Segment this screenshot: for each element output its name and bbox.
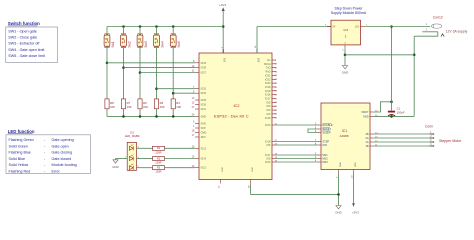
- pin GND bottom of IC1: [338, 170, 340, 174]
- pin GND bottom-right of IC2: [250, 180, 252, 184]
- resistor R1: [153, 146, 165, 150]
- wire R6 to ground rail: [139, 109, 141, 117]
- svg-text:GND: GND: [342, 70, 348, 74]
- wire R3 to IC2: [165, 167, 196, 169]
- svg-text:+3V3: +3V3: [219, 3, 226, 7]
- svg-text:10K: 10K: [143, 105, 148, 109]
- wire IC2 IO17 to IC1: [276, 154, 317, 156]
- svg-text:MS1: MS1: [322, 153, 328, 157]
- pin RESET of IC1: [317, 128, 321, 130]
- svg-text:3V3: 3V3: [224, 57, 227, 62]
- wire Sw4 to IC2: [157, 88, 196, 90]
- junction Sw4 branch: [155, 87, 158, 90]
- junction IC3 ground: [344, 54, 347, 57]
- svg-text:1B: 1B: [365, 144, 368, 148]
- svg-text:IO34: IO34: [201, 62, 207, 65]
- svg-text:IO0: IO0: [266, 109, 271, 112]
- svg-text:IC2: IC2: [233, 103, 239, 108]
- junction 12V rail: [390, 25, 393, 28]
- svg-text:IO13: IO13: [201, 147, 207, 150]
- svg-text:DIR: DIR: [322, 143, 327, 147]
- svg-text:A4988: A4988: [340, 134, 349, 138]
- junction 3V3 rail switch: [139, 25, 142, 28]
- svg-text:GND: GND: [363, 114, 369, 118]
- pin SD3 of IC2: [195, 136, 199, 138]
- junction ground rail: [122, 115, 125, 118]
- wire IC2 IO18 to IC1: [276, 141, 317, 143]
- resistor R2: [153, 157, 165, 161]
- svg-text:Error: Error: [52, 169, 61, 173]
- pin IO16 of IC2: [272, 94, 276, 96]
- pin IO21 of IC2: [195, 108, 199, 110]
- svg-text:Flashing Blue: Flashing Blue: [9, 151, 31, 155]
- svg-text:SW3 - Extractor off: SW3 - Extractor off: [8, 42, 40, 46]
- wire IC1 to stepper pin 1: [374, 133, 430, 135]
- switch Sw4: [154, 35, 160, 46]
- svg-text:IO26: IO26: [201, 104, 207, 107]
- wire IC1 GND pin to ground riser: [374, 115, 414, 117]
- wire switch Sw3 top drop: [139, 27, 141, 36]
- svg-text:Step Down Power: Step Down Power: [334, 7, 363, 11]
- pin 12V of IC3: [361, 26, 365, 28]
- svg-text:Stepper Motor: Stepper Motor: [439, 139, 462, 143]
- svg-text:IO22: IO22: [265, 78, 271, 81]
- wire R7 to ground rail: [123, 109, 125, 117]
- svg-text:IO25: IO25: [201, 99, 207, 102]
- svg-text:Sw3: Sw3: [144, 41, 148, 47]
- wire IC2 IO9 to IC1: [276, 158, 317, 160]
- pin IO15 of IC2: [272, 117, 276, 119]
- junction Sw1 branch: [106, 62, 109, 65]
- pin IO13 of IC2: [195, 147, 199, 149]
- pin IO14 of IC2: [195, 158, 199, 160]
- wire IC1 to stepper pin 2: [374, 137, 430, 139]
- wire IC1 to stepper pin 3: [374, 141, 430, 143]
- pin IO13 of IC2: [272, 124, 276, 126]
- junction 3V3 rail switch: [122, 25, 125, 28]
- pin RxD of IC2: [272, 71, 276, 73]
- pin STEP of IC1: [317, 141, 321, 143]
- pin IO17 of IC2: [272, 154, 276, 156]
- wire RESET-SLEEP loop: [308, 129, 317, 133]
- IC IC2 ESP32 Dev Kit C: [199, 53, 272, 180]
- resistor R4: [171, 99, 175, 109]
- wire switch Sw5 bottom drop: [172, 46, 174, 99]
- svg-text:Supply Module 800mA: Supply Module 800mA: [331, 11, 367, 15]
- wire VMOT to 12V rail: [374, 102, 392, 112]
- svg-text:10K: 10K: [110, 105, 115, 109]
- svg-text:GND: GND: [335, 211, 341, 215]
- svg-text:IO21: IO21: [201, 108, 207, 111]
- svg-text:Con12: Con12: [433, 16, 443, 20]
- wire R8 to ground rail: [106, 109, 108, 117]
- svg-text:IO2: IO2: [266, 113, 271, 116]
- wire ground rail under resistors: [107, 115, 195, 117]
- junction VMOT node: [390, 101, 393, 104]
- junction ground rail: [155, 115, 158, 118]
- svg-text:GND: GND: [112, 165, 118, 169]
- pin BVdd of IC2: [272, 63, 276, 65]
- LED chip symbol: [129, 157, 133, 161]
- resistor R8: [105, 99, 109, 109]
- junction 3V3 rail switch: [172, 25, 175, 28]
- wire IC1 GND to ground: [338, 174, 340, 206]
- resistor R7: [121, 99, 125, 109]
- svg-text:RESET: RESET: [322, 127, 331, 131]
- svg-text:10K: 10K: [160, 105, 165, 109]
- resistor R6: [138, 99, 142, 109]
- svg-text:5V: 5V: [332, 26, 335, 29]
- svg-text:IO21: IO21: [265, 74, 271, 77]
- pin 3V3 of IC2: [222, 49, 224, 53]
- svg-text:Module booting: Module booting: [52, 163, 77, 167]
- pin MS2 of IC1: [317, 158, 321, 160]
- junction ground rail: [139, 115, 142, 118]
- svg-text:MS2: MS2: [322, 157, 328, 161]
- power symbol +3V3 below IC1: [353, 174, 355, 204]
- svg-text:LED function: LED function: [8, 129, 35, 134]
- svg-text:ENABLE: ENABLE: [322, 123, 333, 127]
- svg-text:Sw4: Sw4: [160, 41, 164, 47]
- pin IO35 of IC2: [195, 67, 199, 69]
- capacitor C1: [391, 102, 393, 111]
- svg-text:2A: 2A: [365, 136, 368, 140]
- pin ENABLE of IC1: [317, 124, 321, 126]
- wire switch Sw4 top drop: [156, 27, 158, 36]
- svg-text:Gate closed: Gate closed: [52, 157, 72, 161]
- IC IC3 step down power module: [331, 20, 361, 45]
- svg-text:SLEEP: SLEEP: [322, 131, 331, 135]
- svg-text:Solid Yellow: Solid Yellow: [9, 163, 29, 167]
- svg-text:SVN: SVN: [201, 123, 206, 126]
- wire D1 to R3: [137, 167, 153, 169]
- wire ground to Con12 riser: [345, 54, 414, 56]
- wire D1 to R1: [137, 147, 153, 149]
- svg-text:Solid Green: Solid Green: [9, 144, 28, 148]
- wire switch Sw2 top drop: [123, 27, 125, 36]
- svg-text:IO15: IO15: [265, 117, 271, 120]
- wire R4 to ground rail: [172, 109, 174, 117]
- svg-text:VMOT: VMOT: [361, 110, 369, 114]
- pin TxD of IC2: [272, 67, 276, 69]
- junction Sw5 branch: [172, 92, 175, 95]
- svg-text:Gate opening: Gate opening: [52, 138, 74, 142]
- svg-text:IO35: IO35: [201, 67, 207, 70]
- wire Sw2 to IC2: [124, 67, 196, 69]
- svg-text:IO5: IO5: [266, 101, 271, 104]
- legend box: LED functions: [6, 135, 91, 174]
- IC IC1 A4988 stepper driver: [321, 103, 370, 170]
- pin IO19 of IC2: [272, 90, 276, 92]
- svg-text:GND: GND: [340, 162, 342, 167]
- pin 1A of IC1: [370, 141, 374, 143]
- pin IO18 of IC2: [272, 141, 276, 143]
- pin IO5 of IC2: [272, 101, 276, 103]
- junction ground rail: [172, 115, 175, 118]
- ground symbol for D1: [113, 160, 118, 163]
- pin SVP of IC2: [195, 127, 199, 129]
- switch Sw2: [121, 35, 127, 46]
- svg-text:Conn: Conn: [425, 124, 433, 128]
- pin IO9 of IC2: [272, 158, 276, 160]
- svg-text:IO18: IO18: [265, 86, 271, 89]
- svg-text:SD3: SD3: [201, 136, 206, 139]
- svg-text:Sw1: Sw1: [111, 41, 115, 47]
- svg-text:SW5 - Gate close limit: SW5 - Gate close limit: [8, 54, 44, 58]
- switch Sw3: [137, 35, 143, 46]
- svg-text:SW2 - Close gate: SW2 - Close gate: [8, 36, 37, 40]
- svg-text:IO14: IO14: [201, 158, 207, 161]
- pin IO21 of IC2: [272, 74, 276, 76]
- junction Sw2 branch: [122, 66, 125, 69]
- svg-text:TxD: TxD: [266, 67, 271, 70]
- wire Sw3 to IC2: [140, 72, 195, 74]
- pin IO27 of IC2: [195, 72, 199, 74]
- svg-text:MS3: MS3: [322, 160, 328, 164]
- svg-text:IC1: IC1: [342, 129, 347, 133]
- pin En of IC2: [272, 59, 276, 61]
- svg-text:IO5: IO5: [266, 144, 271, 147]
- wire LED common to GND: [116, 158, 128, 160]
- wire R5 to ground rail: [156, 109, 158, 117]
- svg-text:Gate closing: Gate closing: [52, 151, 73, 155]
- svg-text:220R: 220R: [156, 171, 162, 174]
- svg-text:220R: 220R: [156, 151, 162, 154]
- svg-text:Sw5: Sw5: [177, 41, 181, 47]
- pin IO33 of IC2: [195, 92, 199, 94]
- svg-text:SW1 - Open gate: SW1 - Open gate: [8, 29, 37, 33]
- pin IO26 of IC2: [195, 104, 199, 106]
- pin IO4 of IC2: [272, 105, 276, 107]
- pin SLEEP of IC1: [317, 132, 321, 134]
- svg-text:CMD: CMD: [201, 132, 207, 135]
- resistor R3: [153, 166, 165, 170]
- pin 1B of IC1: [370, 145, 374, 147]
- junction ground riser: [413, 54, 416, 57]
- wire 12V drop: [391, 27, 393, 102]
- svg-text:IO4: IO4: [266, 105, 271, 108]
- svg-text:10K: 10K: [176, 105, 181, 109]
- switch Sw1: [104, 35, 110, 46]
- pin GND of IC2: [195, 115, 199, 117]
- wire +3V3 riser: [222, 11, 224, 53]
- svg-text:Gate open: Gate open: [52, 144, 69, 148]
- wire IC2 ground to IC1 ground: [250, 184, 252, 195]
- wire +3V3 rail to switches: [107, 26, 223, 28]
- svg-text:IO10: IO10: [265, 161, 271, 164]
- wire switch Sw1 top drop: [106, 27, 108, 36]
- svg-text:GND: GND: [201, 115, 207, 118]
- pin 2B of IC1: [370, 133, 374, 135]
- wire switch Sw4 bottom drop: [156, 46, 158, 99]
- svg-text:IO27: IO27: [201, 72, 207, 75]
- junction C1 bottom: [390, 115, 393, 118]
- svg-text:1A: 1A: [365, 140, 368, 144]
- svg-text:+3V3: +3V3: [352, 211, 359, 215]
- svg-text:GND: GND: [222, 167, 224, 172]
- wire R2 to IC2: [165, 158, 196, 160]
- svg-text:Sw2: Sw2: [127, 41, 131, 47]
- svg-text:IO32: IO32: [201, 88, 207, 91]
- svg-text:Solid Blue: Solid Blue: [9, 157, 26, 161]
- pin IO23 of IC2: [272, 82, 276, 84]
- svg-text:SW4 - Gate open limit: SW4 - Gate open limit: [8, 48, 44, 52]
- svg-text:G: G: [345, 42, 347, 44]
- svg-text:12V: 12V: [355, 26, 360, 29]
- svg-text:VDD: VDD: [355, 162, 357, 167]
- pin MS3 of IC1: [317, 161, 321, 163]
- svg-text:Switch function: Switch function: [8, 21, 40, 26]
- pin 2A of IC1: [370, 137, 374, 139]
- svg-text:10K: 10K: [127, 105, 132, 109]
- legend box: switch functions: [6, 27, 58, 63]
- pin CMD of IC2: [195, 132, 199, 134]
- wire IC1 to stepper pin 4: [374, 145, 430, 147]
- junction 3V3 rail switch: [155, 25, 158, 28]
- svg-text:BVdd: BVdd: [264, 63, 271, 66]
- svg-text:GND: GND: [252, 167, 254, 172]
- wire D1 to R2: [137, 158, 153, 160]
- ground symbol below IC3: [342, 66, 347, 69]
- pin IO34 of IC2: [195, 62, 199, 64]
- pin G of IC3: [344, 45, 346, 49]
- pin IO5 of IC2: [272, 144, 276, 146]
- svg-text:2B: 2B: [365, 132, 368, 136]
- LED D1 body: [127, 142, 136, 170]
- svg-text:5V0: 5V0: [257, 57, 260, 62]
- pin IO12 of IC2: [195, 167, 199, 169]
- pin 5V0 of IC2: [256, 49, 258, 53]
- pin VMOT of IC1: [370, 111, 374, 113]
- svg-text:Flashing Red: Flashing Red: [9, 169, 31, 173]
- wire switch Sw1 bottom drop: [106, 46, 108, 99]
- junction IC1 ground: [337, 193, 340, 196]
- wire IC2 IO10 to IC1: [276, 161, 317, 163]
- svg-text:12V 3A supply: 12V 3A supply: [446, 29, 468, 33]
- svg-text:SVP: SVP: [201, 127, 206, 130]
- pin IO25 of IC2: [195, 99, 199, 101]
- wire 12V rail: [365, 26, 431, 28]
- svg-text:IO13: IO13: [265, 124, 271, 127]
- svg-text:IO23: IO23: [265, 82, 271, 85]
- pin IO18 of IC2: [272, 86, 276, 88]
- svg-text:IO16: IO16: [265, 94, 271, 97]
- pin GND of IC1: [370, 115, 374, 117]
- svg-text:IO17: IO17: [265, 98, 271, 101]
- svg-text:LED_RGBK: LED_RGBK: [125, 134, 140, 138]
- LED chip symbol: [129, 166, 133, 170]
- junction 3V3 rail: [222, 25, 225, 28]
- LED chip symbol: [129, 146, 133, 150]
- pin SVN of IC2: [195, 123, 199, 125]
- wire IC2 IO13 to IC1: [276, 124, 317, 126]
- switch Sw5: [170, 35, 176, 46]
- wire IC2 IO5 to IC1: [276, 144, 317, 146]
- pin 5V of IC3: [327, 26, 331, 28]
- wire IC3 ground drop: [344, 49, 346, 66]
- pin VDD bottom of IC1: [353, 170, 355, 174]
- svg-text:100uF: 100uF: [397, 111, 405, 115]
- pin IO0 of IC2: [272, 109, 276, 111]
- svg-text:IO12: IO12: [201, 167, 207, 170]
- pin IO2 of IC2: [272, 113, 276, 115]
- pin IO10 of IC2: [272, 161, 276, 163]
- svg-text:IO33: IO33: [201, 92, 207, 95]
- wire R1 to IC2: [165, 147, 196, 149]
- pin GND bottom-left of IC2: [220, 180, 222, 184]
- svg-text:IC3: IC3: [343, 28, 348, 32]
- svg-text:220R: 220R: [156, 162, 162, 165]
- svg-text:IO19: IO19: [265, 90, 271, 93]
- wire switch Sw5 top drop: [172, 27, 174, 36]
- pin MS1 of IC1: [317, 154, 321, 156]
- resistor R5: [154, 99, 158, 109]
- wire ground riser to Con12: [413, 36, 415, 116]
- wire Sw1 to IC2: [107, 62, 195, 64]
- wire 5V link IC2 to IC3: [256, 27, 258, 54]
- wire switch Sw3 bottom drop: [139, 46, 141, 99]
- svg-text:Flashing Green: Flashing Green: [9, 138, 34, 142]
- pin IO22 of IC2: [272, 78, 276, 80]
- ground symbol below IC1: [336, 206, 341, 209]
- pin IO32 of IC2: [195, 88, 199, 90]
- svg-text:1: 1: [345, 35, 347, 39]
- wire Sw5 to IC2: [173, 92, 195, 94]
- pin DIR of IC1: [317, 144, 321, 146]
- svg-text:STEP: STEP: [322, 140, 329, 144]
- wire switch Sw2 bottom drop: [123, 46, 125, 99]
- pin IO17 of IC2: [272, 98, 276, 100]
- svg-text:RxD: RxD: [266, 71, 271, 74]
- svg-text:ESP32 - Dev Kit C: ESP32 - Dev Kit C: [214, 113, 249, 118]
- junction Sw3 branch: [139, 71, 142, 74]
